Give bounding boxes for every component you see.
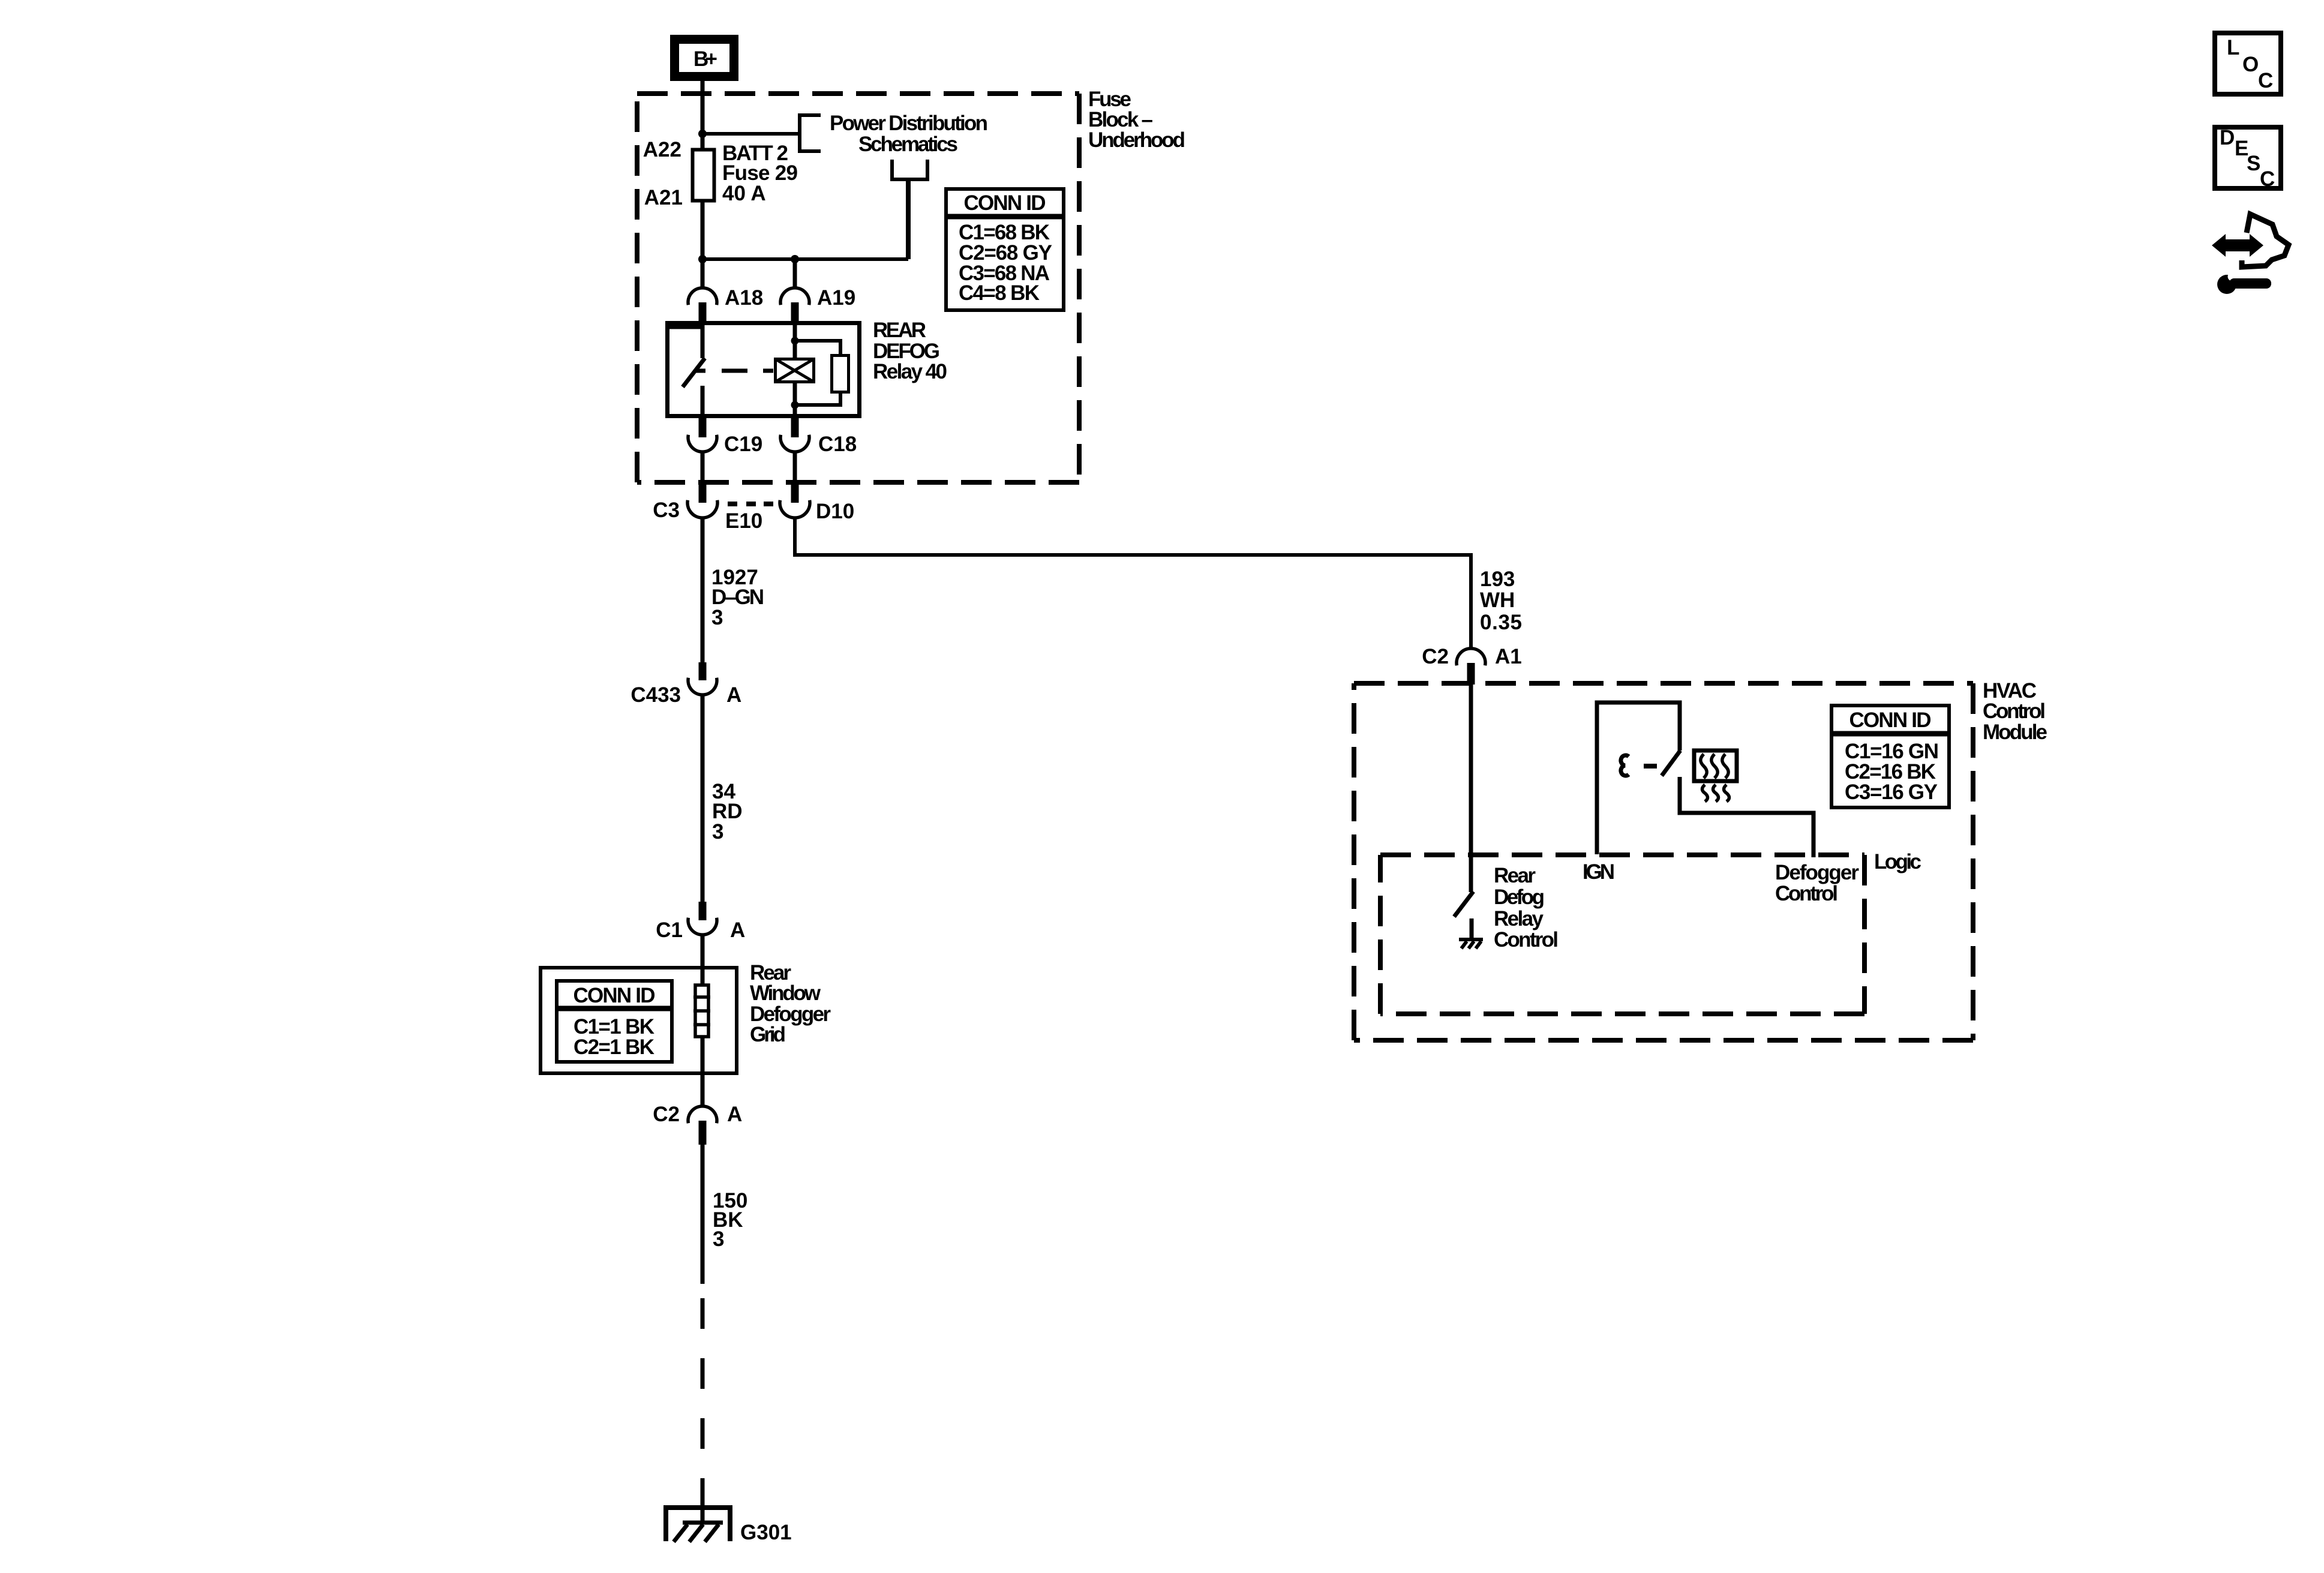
svg-text:40 A: 40 A xyxy=(722,182,766,205)
wire junction to A19 branch xyxy=(702,257,908,261)
node B+ (battery positive) xyxy=(675,40,734,77)
svg-text:C433: C433 xyxy=(630,683,681,707)
wire A1 to relay control switch xyxy=(1469,685,1473,892)
svg-text:A: A xyxy=(730,918,745,942)
svg-text:3: 3 xyxy=(713,1227,724,1251)
label Rear Defog Relay Control xyxy=(1494,864,1559,951)
svg-text:O: O xyxy=(2242,53,2259,76)
wire C18 to D10 xyxy=(793,451,797,485)
svg-text:CONN ID: CONN ID xyxy=(574,984,656,1007)
svg-text:C2: C2 xyxy=(1422,645,1449,668)
wire to G301 (dashed continuation) xyxy=(701,1298,705,1498)
off-page reference bracket (schematics return) xyxy=(890,160,929,179)
svg-text:Defogger: Defogger xyxy=(1775,861,1859,884)
wire junction to off-page bracket xyxy=(702,132,800,136)
svg-text:Relay: Relay xyxy=(1494,907,1544,930)
conn id table (defogger grid) xyxy=(555,981,674,1062)
wire coil bottom to C18 xyxy=(793,382,797,416)
wire fuse A21 to connector A18 xyxy=(701,201,705,288)
wire C19 to C3 xyxy=(701,451,705,485)
node junction to power distribution xyxy=(698,130,707,138)
svg-text:A: A xyxy=(727,1103,742,1126)
svg-text:C2: C2 xyxy=(653,1103,680,1126)
svg-text:A19: A19 xyxy=(817,286,855,310)
fuse BATT 2 Fuse 29 40 A xyxy=(693,150,714,201)
wire label 150 BK 3 xyxy=(713,1189,747,1251)
wire B+ to fuse A22 xyxy=(701,80,705,149)
logic dashed box xyxy=(1380,855,1864,1014)
wire ignition switch to defogger control xyxy=(1680,777,1813,857)
label Power Distribution Schematics xyxy=(830,112,988,156)
svg-text:B+: B+ xyxy=(693,47,717,71)
ignition switch key symbol xyxy=(1621,755,1629,776)
connector C433 pin stub xyxy=(699,662,707,680)
svg-text:E10: E10 xyxy=(725,509,762,533)
connector A19 pin stub xyxy=(791,302,799,322)
relay coil (crossed box) xyxy=(776,359,814,382)
wire D10 to HVAC C2 pin A1 (circuit 193) xyxy=(795,517,1471,650)
label Rear Window Defogger Grid xyxy=(750,961,831,1046)
svg-text:3: 3 xyxy=(711,606,723,629)
svg-text:193: 193 xyxy=(1480,568,1515,591)
svg-text:Relay 40: Relay 40 xyxy=(873,360,947,383)
wire A19 drop from junction xyxy=(793,259,797,288)
connector C18 pin stub xyxy=(791,418,799,437)
svg-text:Control: Control xyxy=(1775,882,1838,905)
svg-text:A18: A18 xyxy=(725,286,763,310)
svg-text:C4=8 BK: C4=8 BK xyxy=(959,281,1040,305)
label Defogger Control xyxy=(1775,861,1859,905)
defogger grid element xyxy=(693,985,710,1037)
svg-text:3: 3 xyxy=(712,820,723,843)
heated rear window indicator xyxy=(1694,751,1737,801)
connector C2 pin stub xyxy=(699,1121,707,1145)
ground G301 xyxy=(666,1488,730,1542)
svg-text:REAR: REAR xyxy=(873,319,926,342)
svg-text:Grid: Grid xyxy=(750,1023,786,1046)
svg-text:D10: D10 xyxy=(816,500,854,523)
svg-text:Power Distribution: Power Distribution xyxy=(830,112,988,135)
svg-text:WH: WH xyxy=(1480,589,1515,612)
wire C2 to ground (circuit 150) xyxy=(701,1145,705,1284)
node fuse output junction xyxy=(698,255,707,263)
svg-text:Window: Window xyxy=(750,981,821,1005)
label HVAC Control Module xyxy=(1983,679,2047,744)
relay switch fixed contact from A18 xyxy=(668,325,702,358)
wire coil top to resistor xyxy=(795,341,840,355)
vehicle data transfer icon (arrow, car, wrench) xyxy=(2212,214,2289,294)
connector A18 pin stub xyxy=(699,302,707,322)
svg-text:CONN ID: CONN ID xyxy=(964,191,1046,215)
svg-text:Schematics: Schematics xyxy=(858,133,958,156)
svg-text:A21: A21 xyxy=(644,186,683,209)
relay actuator dashed link xyxy=(695,369,773,373)
connector D10 arc xyxy=(780,500,810,518)
svg-text:S: S xyxy=(2247,152,2260,175)
svg-text:Defog: Defog xyxy=(1494,885,1545,909)
connector C433 arc xyxy=(688,678,717,695)
wire A19 to coil top xyxy=(793,325,797,359)
IGN feed loop xyxy=(1597,703,1680,854)
connector A18 arc xyxy=(688,288,717,305)
svg-text:C: C xyxy=(2258,69,2273,92)
connector C19 pin stub xyxy=(699,418,707,437)
connector C3 pin stub xyxy=(699,484,707,503)
relay switch blade xyxy=(683,358,705,387)
svg-text:Control: Control xyxy=(1494,928,1559,951)
conn id table (fuse block) xyxy=(944,189,1065,310)
loc button xyxy=(2215,33,2281,94)
svg-text:Module: Module xyxy=(1983,721,2047,744)
svg-text:A: A xyxy=(726,683,741,707)
svg-text:C3: C3 xyxy=(653,499,680,522)
connector C19 arc xyxy=(688,435,717,452)
svg-text:A1: A1 xyxy=(1495,645,1522,668)
rear defog relay control switch blade xyxy=(1454,891,1473,917)
fuse block underhood dashed box xyxy=(637,94,1079,482)
svg-text:C19: C19 xyxy=(724,433,762,456)
connector C3 arc xyxy=(687,500,717,518)
connector C1 arc xyxy=(688,918,717,935)
node coil top xyxy=(791,337,799,345)
wire branch to schematics return bracket xyxy=(906,181,911,259)
off-page reference bracket (power distribution) xyxy=(800,113,821,153)
relay switch output contact xyxy=(701,386,705,416)
ignition switch blade xyxy=(1662,751,1680,776)
connector C2 arc (grid output) xyxy=(688,1106,717,1123)
node coil bottom xyxy=(791,401,799,409)
wire C433 to C1 (circuit 34) xyxy=(701,694,705,902)
svg-text:0.35: 0.35 xyxy=(1480,611,1522,634)
wire label 1927 D-GN 3 xyxy=(711,566,764,629)
svg-text:Rear: Rear xyxy=(1494,864,1536,887)
wire label 193 WH 0.35 xyxy=(1480,568,1522,634)
svg-text:D: D xyxy=(2220,126,2235,149)
wire grid to C2 xyxy=(701,1037,705,1107)
connector A1 pin stub xyxy=(1467,663,1475,685)
logic ground xyxy=(1459,939,1483,948)
connector C18 arc xyxy=(780,435,809,452)
ignition switch dashed link xyxy=(1644,764,1657,769)
HVAC control module dashed box xyxy=(1354,683,1973,1040)
svg-text:C1: C1 xyxy=(656,918,683,942)
svg-text:C18: C18 xyxy=(818,433,857,456)
svg-text:L: L xyxy=(2227,36,2239,59)
resistor (relay suppression) xyxy=(832,356,849,392)
conn id table (HVAC) xyxy=(1830,706,1951,807)
desc button xyxy=(2215,126,2281,191)
svg-text:C: C xyxy=(2260,167,2275,191)
wire resistor to coil bottom node xyxy=(795,392,840,405)
wire C1 to defogger grid xyxy=(701,934,705,985)
connector D10 pin stub xyxy=(791,484,799,503)
svg-text:A22: A22 xyxy=(643,138,681,161)
relay control switch output stub xyxy=(1470,918,1474,939)
label REAR DEFOG Relay 40 xyxy=(873,319,947,383)
inline connector E10 dashed link xyxy=(728,502,773,506)
svg-text:Underhood: Underhood xyxy=(1088,128,1185,152)
svg-text:G301: G301 xyxy=(740,1521,792,1544)
svg-text:Logic: Logic xyxy=(1874,850,1921,873)
svg-text:C2=1 BK: C2=1 BK xyxy=(574,1035,654,1059)
label Fuse Block - Underhood xyxy=(1088,88,1185,152)
connector A19 arc xyxy=(780,288,809,305)
rear window defogger grid box xyxy=(541,968,737,1073)
svg-text:IGN: IGN xyxy=(1583,860,1615,884)
svg-text:Control: Control xyxy=(1983,700,2046,723)
node A19 branch junction xyxy=(791,255,799,263)
connector C2 arc (HVAC pin A1) xyxy=(1457,649,1485,665)
label BATT 2 Fuse 29 40 A xyxy=(722,142,798,205)
svg-text:C3=16 GY: C3=16 GY xyxy=(1845,781,1938,804)
wire label 34 RD 3 xyxy=(712,780,743,843)
connector C1 pin stub xyxy=(699,902,707,920)
relay K40 box (REAR DEFOG Relay 40) xyxy=(668,323,860,416)
wire C3 to C433 (circuit 1927) xyxy=(701,517,705,662)
svg-text:CONN ID: CONN ID xyxy=(1849,709,1932,732)
